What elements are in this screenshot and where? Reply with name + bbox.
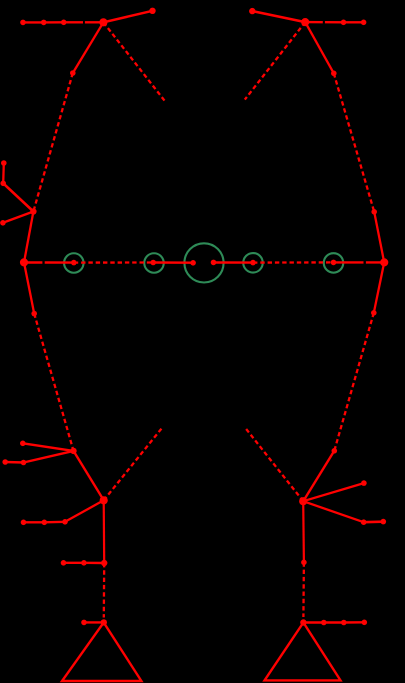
edge M1-hipL: [24, 262, 34, 313]
node D333: [331, 260, 337, 266]
edge ankleR-RT1: [303, 621, 323, 623]
node Sh1: [81, 560, 87, 566]
node hipL: [31, 311, 37, 317]
node headL: [149, 8, 155, 14]
node D193: [190, 260, 196, 266]
edge RT2-RT3: [344, 621, 365, 624]
dashed edge shinR-ankleR: [302, 562, 305, 617]
node S2: [21, 460, 27, 466]
edge C1b-C1c: [24, 521, 45, 523]
node elbowL: [70, 70, 76, 76]
node ankleR: [300, 619, 306, 625]
node T3: [61, 20, 67, 26]
node elbowR: [331, 71, 337, 77]
node F1: [1, 160, 7, 166]
node D213: [211, 260, 217, 266]
node headR: [249, 8, 255, 14]
edge F1-F2: [2, 163, 5, 183]
edge RS-K2: [303, 451, 334, 501]
edge wristL-F3: [3, 212, 34, 223]
node C1b: [42, 520, 48, 526]
edge J1-S2: [24, 451, 74, 463]
edge gap-D74: [45, 261, 74, 264]
node RA: [361, 480, 367, 486]
node Sh2: [61, 560, 67, 566]
dashed edge elbowR-wristR: [334, 73, 374, 212]
edge J1-K1: [74, 451, 104, 500]
node F2: [0, 181, 6, 187]
dashed stub from K2: [245, 427, 303, 501]
node RC: [381, 519, 387, 525]
edge headR-H2: [252, 11, 305, 22]
edge C1a-C1b: [44, 521, 65, 524]
node wristL junction: [30, 208, 36, 214]
dashed edge elbowL-wristL: [33, 73, 72, 212]
hub node K2: [299, 497, 307, 505]
edge D213-D253: [214, 261, 254, 264]
node RT1: [321, 620, 327, 626]
node T5: [361, 20, 367, 26]
green circle ring5: [324, 253, 344, 273]
edge K2-RA: [303, 483, 364, 501]
edge wristL-M1: [24, 212, 33, 263]
node T2: [41, 20, 47, 26]
edge T3-gap: [64, 21, 83, 23]
node RS: [332, 448, 338, 454]
dashed edge D253-D333: [253, 261, 334, 264]
edge D333-gap: [334, 261, 364, 263]
edge F2-wristL: [3, 183, 33, 211]
edge K2-RB: [303, 501, 364, 522]
edge H1-headL: [103, 11, 152, 22]
dashed stub from H2: [245, 22, 305, 100]
dashed edge hipL-J1: [34, 314, 73, 451]
node C1a: [62, 519, 68, 525]
edge D153-D193: [153, 261, 193, 264]
green circle ring2: [144, 253, 164, 273]
hub node H1: [99, 18, 107, 26]
node D153: [150, 260, 156, 266]
edge M1-gap: [24, 261, 42, 263]
node shinR: [301, 560, 307, 566]
dashed edge J3-ankleL: [103, 563, 106, 618]
node RB: [361, 519, 367, 525]
green circle ring4: [243, 253, 263, 273]
node S3: [2, 459, 8, 465]
left foot triangle: [62, 623, 141, 682]
edge J3-Sh1: [84, 562, 104, 565]
edge T2-T3: [44, 21, 64, 24]
edge RB-RC: [364, 520, 384, 523]
edge RT1-RT2: [324, 621, 344, 623]
edge H2-elbowR: [305, 22, 334, 73]
edge T1-T2: [23, 21, 44, 23]
hub node H2: [301, 18, 309, 26]
node RT3: [362, 620, 368, 626]
edge wristR-M2: [374, 212, 384, 263]
green circle big ring3: [184, 243, 223, 282]
edge K1-C1a: [65, 500, 104, 522]
green circle ring1: [64, 253, 84, 273]
edge S2-S3: [5, 461, 23, 464]
edge K1-J3: [103, 500, 106, 563]
edge J1-S1: [23, 443, 74, 451]
edge Sh1-Sh2: [64, 562, 84, 564]
edge M2-hipR: [374, 262, 384, 312]
node ankleL: [101, 619, 107, 625]
edge K2-shinR: [302, 501, 305, 562]
edge H1-elbowL: [73, 22, 104, 73]
node hipR: [371, 310, 377, 316]
node C1c: [21, 520, 27, 526]
node D74: [71, 260, 77, 266]
node toeL: [81, 620, 87, 626]
edge gap-M2: [366, 261, 384, 263]
edge gap-H1: [85, 21, 104, 23]
node D253: [250, 260, 256, 266]
node RT2: [341, 620, 347, 626]
dashed edge hipR-RS: [334, 313, 374, 451]
right foot triangle: [265, 623, 341, 681]
dashed edge D74-D153: [74, 261, 153, 263]
hub node M1: [20, 258, 28, 266]
node T1: [20, 20, 26, 26]
node F3: [0, 220, 6, 226]
edge gap-T4: [325, 21, 344, 23]
node T4: [341, 20, 347, 26]
hub node K1: [100, 496, 108, 504]
hub node M2: [380, 258, 388, 266]
node S1: [20, 441, 26, 447]
edge ankleL-toeL: [84, 621, 104, 623]
node J3 junction: [101, 560, 107, 566]
node J1 junction: [70, 448, 76, 454]
node wristR: [371, 209, 377, 215]
dashed stub from H1: [103, 22, 165, 101]
edge T4-T5: [344, 21, 364, 23]
edge H2-gap: [305, 21, 323, 24]
dashed stub from K1: [104, 427, 163, 501]
